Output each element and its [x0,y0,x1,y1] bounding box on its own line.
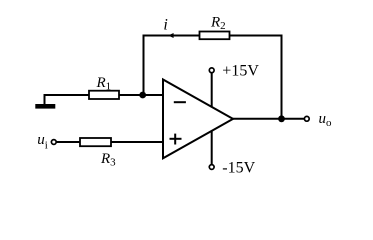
svg-text:+15V: +15V [222,63,259,80]
svg-text:-15V: -15V [222,160,255,177]
svg-text:i: i [163,16,167,33]
